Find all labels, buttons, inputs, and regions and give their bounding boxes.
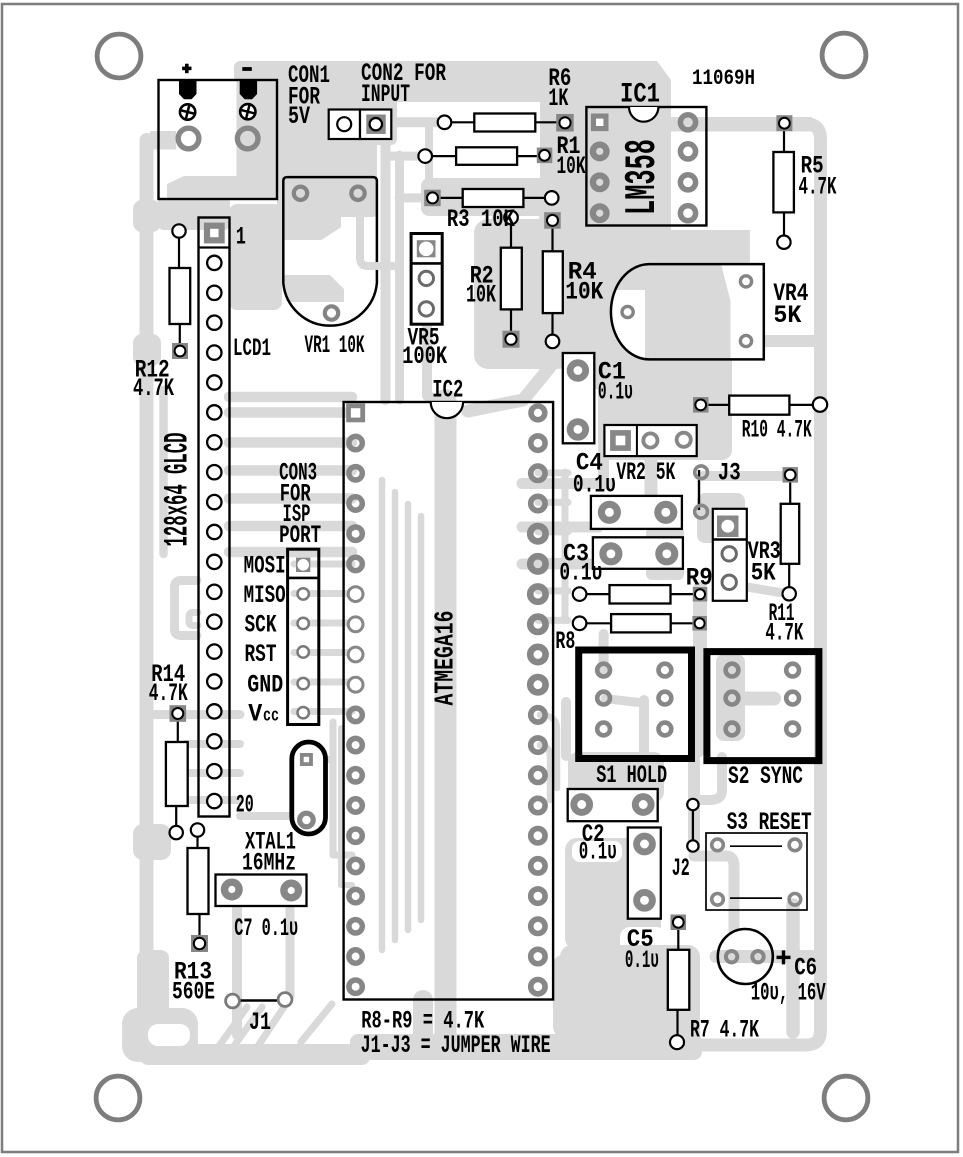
- CON1 hole pads: [178, 128, 199, 149]
- wire: verticals to IC2: [381, 120, 391, 400]
- svg-text:0.1υ: 0.1υ: [559, 558, 602, 587]
- svg-text:4.7K: 4.7K: [765, 618, 803, 647]
- resistor R6: [446, 121, 474, 123]
- resistor R4: [551, 228, 553, 251]
- resistor R12: [178, 237, 180, 268]
- resistor R5: [783, 130, 785, 152]
- capacitor C5: [628, 828, 661, 919]
- resistor R2: [510, 222, 512, 248]
- svg-text:S3 RESET: S3 RESET: [727, 808, 812, 837]
- svg-text:C7 0.1υ: C7 0.1υ: [234, 914, 298, 943]
- svg-text:J1: J1: [249, 1008, 271, 1037]
- CON3 pins: [298, 588, 309, 599]
- IC1 left pins: [593, 145, 607, 159]
- resistor R7: [677, 930, 679, 950]
- svg-text:R10 4.7K: R10 4.7K: [742, 415, 812, 444]
- svg-text:0.1υ: 0.1υ: [625, 946, 659, 975]
- CON1 plus terminal tab: [179, 81, 197, 100]
- VR1 pads: [294, 187, 307, 200]
- resistor R11: [789, 482, 791, 504]
- svg-text:S2 SYNC: S2 SYNC: [728, 762, 803, 791]
- svg-text:LM358: LM358: [618, 139, 668, 215]
- svg-text:J3: J3: [718, 459, 741, 488]
- connector CON2: [329, 110, 360, 140]
- IC1 pin 1 pad: [591, 114, 609, 132]
- svg-text:VR2 5K: VR2 5K: [616, 458, 675, 487]
- mounting hole top-right: [822, 33, 866, 77]
- svg-text:10υ, 16V: 10υ, 16V: [751, 978, 826, 1007]
- svg-text:0.1υ: 0.1υ: [573, 471, 616, 500]
- wire: CON1 inner pour: [160, 137, 276, 197]
- preset VR3 body: [713, 509, 747, 601]
- wire: IC2 inner traces: [435, 400, 457, 1035]
- mounting hole top-left: [97, 34, 141, 78]
- svg-text:S1 HOLD: S1 HOLD: [596, 761, 667, 790]
- svg-text:16MHz: 16MHz: [242, 849, 296, 878]
- mounting hole bottom-right: [824, 1076, 868, 1120]
- svg-text:0.1υ: 0.1υ: [579, 838, 617, 867]
- resistor R13: [196, 836, 198, 848]
- svg-text:cc: cc: [263, 707, 279, 727]
- svg-text:10K: 10K: [557, 152, 586, 181]
- switch S1 body: [579, 650, 692, 759]
- jumper J1: [238, 999, 281, 1001]
- svg-text:11069H: 11069H: [692, 66, 755, 91]
- svg-text:1: 1: [236, 222, 246, 251]
- capacitor C4: [591, 496, 682, 529]
- resistor R14: [177, 721, 179, 742]
- C6 plus mark: [782, 950, 785, 964]
- svg-text:1K: 1K: [548, 84, 568, 113]
- S3 pads: [712, 839, 724, 851]
- VR4 pads: [622, 306, 633, 317]
- svg-text:MOSI: MOSI: [244, 552, 286, 581]
- wire: bottom pours: [565, 838, 661, 950]
- wire: copper trace layer: [122, 61, 821, 1065]
- S1 pads: [597, 664, 610, 677]
- svg-text:20: 20: [236, 791, 254, 820]
- resistor R8: [586, 622, 611, 624]
- svg-text:R9: R9: [686, 563, 713, 592]
- CON1 plus label: [185, 64, 189, 73]
- svg-text:SCK: SCK: [245, 611, 277, 640]
- resistor R1: [432, 155, 456, 157]
- svg-text:5V: 5V: [288, 102, 310, 131]
- LCD1 pins: [207, 256, 221, 270]
- wire: IC1 pour: [540, 61, 671, 122]
- svg-text:R3 10K: R3 10K: [447, 205, 515, 234]
- svg-text:0.1υ: 0.1υ: [598, 378, 633, 407]
- microcontroller IC2 ATMEGA16 body: [344, 402, 553, 1000]
- IC2 right pins: [531, 406, 545, 420]
- svg-text:PORT: PORT: [279, 521, 321, 550]
- svg-text:INPUT: INPUT: [361, 80, 410, 109]
- CON1 screw + pad: [180, 104, 195, 119]
- CON1 minus terminal tab: [240, 81, 257, 100]
- S2 pads: [726, 664, 739, 677]
- svg-text:128x64 GLCD: 128x64 GLCD: [160, 433, 198, 547]
- resistor R10: [708, 404, 729, 406]
- preset VR5 body: [411, 234, 442, 325]
- svg-text:RST: RST: [245, 640, 277, 669]
- svg-text:4.7K: 4.7K: [799, 173, 837, 202]
- svg-text:MISO: MISO: [244, 581, 286, 610]
- svg-text:ATMEGA16: ATMEGA16: [432, 611, 462, 706]
- svg-text:IC2: IC2: [432, 376, 463, 405]
- capacitor C3: [593, 537, 683, 569]
- svg-text:560E: 560E: [172, 978, 215, 1007]
- svg-text:J2: J2: [672, 854, 690, 883]
- crystal XTAL1 body: [292, 742, 326, 834]
- svg-text:J1-J3 = JUMPER WIRE: J1-J3 = JUMPER WIRE: [361, 1031, 551, 1060]
- mounting hole bottom-left: [96, 1076, 140, 1120]
- svg-text:10K: 10K: [565, 277, 603, 306]
- wire: S1/S2 pour: [599, 634, 609, 672]
- connector LCD1 body: [199, 218, 230, 817]
- CON3 MOSI pad: [296, 558, 310, 572]
- wire: C3/C4 pour: [614, 398, 630, 431]
- capacitor C1: [563, 353, 595, 443]
- connector CON1 body: [159, 80, 278, 199]
- svg-text:R8: R8: [555, 627, 575, 656]
- svg-text:5K: 5K: [751, 558, 776, 587]
- svg-text:100K: 100K: [402, 342, 447, 371]
- IC2 pin 1 pad: [346, 403, 365, 422]
- wire: right highway: [660, 117, 812, 132]
- LCD1 pin 1 pad: [204, 223, 225, 244]
- resistor R9: [586, 593, 610, 595]
- switch S2 body: [707, 652, 819, 761]
- svg-text:4.7K: 4.7K: [133, 374, 174, 403]
- CON1 screw - pad: [240, 104, 255, 119]
- wire: VR4 pour: [571, 240, 661, 389]
- op-amp IC1 LM358 body: [586, 107, 706, 226]
- preset VR2 body: [604, 425, 696, 456]
- capacitor C6 electrolytic: [718, 929, 773, 984]
- capacitor C7: [216, 875, 307, 907]
- svg-text:VR1 10K: VR1 10K: [305, 331, 365, 360]
- svg-text:4.7K: 4.7K: [149, 679, 188, 708]
- jumper J2: [692, 805, 694, 847]
- svg-text:R7 4.7K: R7 4.7K: [690, 1016, 759, 1045]
- wire: LCD-IC2 rows: [229, 392, 352, 403]
- jumper J3: [698, 470, 700, 510]
- switch S3 body: [706, 833, 807, 910]
- connector CON3 body: [288, 549, 319, 724]
- svg-text:10K: 10K: [466, 280, 496, 309]
- svg-text:V: V: [248, 700, 262, 729]
- wire: left highway: [140, 140, 154, 1045]
- svg-text:5K: 5K: [773, 301, 801, 330]
- IC1 right pins: [680, 115, 695, 130]
- resistor R3: [440, 197, 463, 199]
- wire: R2/R4 pour: [421, 178, 571, 216]
- svg-text:IC1: IC1: [620, 80, 660, 111]
- capacitor C2: [568, 789, 658, 821]
- svg-text:GND: GND: [247, 670, 283, 699]
- IC2 left pins: [349, 436, 362, 449]
- CON1 minus label: [242, 67, 252, 71]
- svg-text:LCD1: LCD1: [233, 334, 271, 363]
